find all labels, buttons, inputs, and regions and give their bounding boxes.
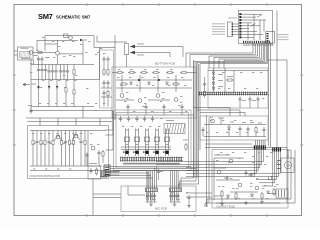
svg-text:OUTPUT PCB: OUTPUT PCB: [217, 204, 235, 208]
svg-text:SCHEMATIC SM7: SCHEMATIC SM7: [56, 15, 91, 20]
svg-text:BOTTOM PCB: BOTTOM PCB: [155, 62, 175, 66]
svg-text:FUNCTION SWITCH PCB: FUNCTION SWITCH PCB: [30, 174, 61, 178]
svg-text:SM7: SM7: [38, 12, 53, 21]
svg-text:MIC PCB: MIC PCB: [155, 207, 167, 211]
svg-text:FUNCTION SWITCH PCB: FUNCTION SWITCH PCB: [243, 43, 274, 47]
